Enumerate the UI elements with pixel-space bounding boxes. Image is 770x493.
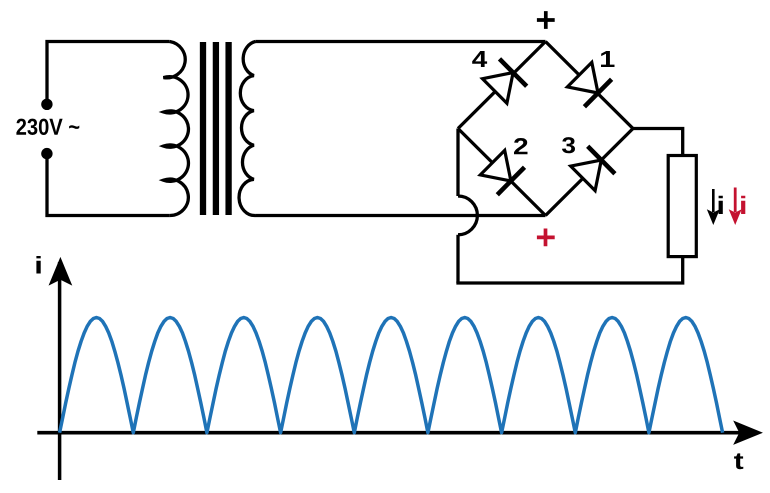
wire: primary loop top: [47, 42, 170, 111]
waveform: rectified sine: [60, 318, 723, 433]
diode 4: [483, 59, 527, 103]
plus sign red (bottom node): [537, 229, 555, 247]
label i (black current): [719, 196, 723, 214]
AC source terminal dot (top): [41, 99, 52, 110]
transformer core bar 2: [213, 42, 219, 215]
label 2: [514, 138, 528, 154]
wire: bridge edge left-top: [458, 42, 546, 129]
wire: bridge edge left-bottom: [458, 129, 546, 216]
wire: secondary top to bridge top node: [256, 40, 546, 43]
diode 2: [480, 150, 524, 194]
diode 3: [571, 146, 615, 190]
wire: right node to resistor top: [633, 129, 683, 156]
label 3: [562, 137, 575, 153]
wire: bridge edge bottom-right: [546, 129, 634, 216]
diode 1: [567, 62, 611, 106]
resistor R (load): [668, 156, 696, 257]
wire: secondary bottom to bridge bottom node: [256, 214, 546, 217]
label i (red current): [741, 196, 745, 214]
wire: crossover down to bottom rail: [456, 235, 459, 283]
transformer core bar 3: [225, 42, 231, 215]
transformer core bar 1: [200, 42, 206, 215]
wire: primary loop bottom: [47, 150, 170, 216]
wire: left node down to crossover: [456, 129, 459, 197]
crossover hop: [458, 196, 477, 235]
x-axis: [37, 422, 761, 444]
plus sign (top node): [537, 11, 555, 29]
AC source terminal dot (bottom): [41, 148, 52, 159]
label 1: [601, 51, 615, 67]
transformer secondary winding: [239, 42, 255, 216]
label t: [734, 453, 743, 469]
y-axis: [50, 258, 72, 480]
current arrow i (red): [730, 188, 741, 224]
label 4: [472, 51, 487, 67]
label 230V ~: [16, 119, 79, 135]
wire: bridge edge top-right: [546, 42, 634, 129]
wire: bottom rail: [458, 257, 683, 283]
label i (y-axis): [36, 256, 40, 274]
transformer primary winding: [164, 42, 189, 216]
current arrow i (black): [708, 189, 719, 224]
